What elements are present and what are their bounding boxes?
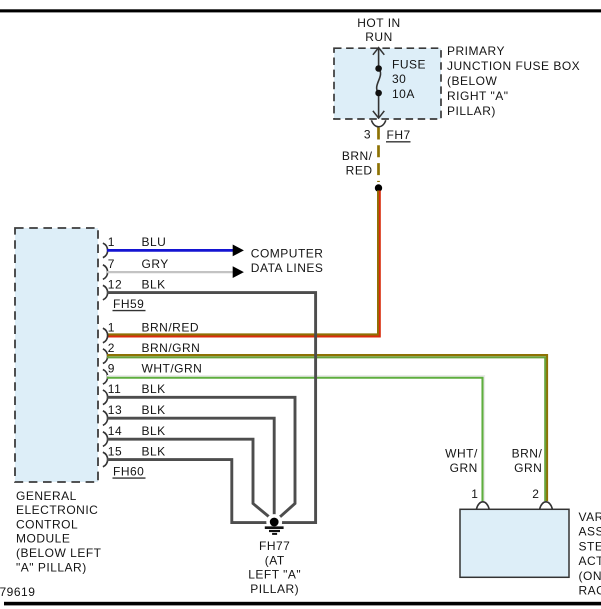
connector pin 2 arc on actuator: [540, 502, 553, 509]
svg-text:BLK: BLK: [142, 277, 166, 291]
svg-text:2: 2: [108, 341, 115, 355]
svg-text:BLK: BLK: [142, 424, 166, 438]
svg-text:3: 3: [364, 128, 371, 142]
svg-text:(AT: (AT: [265, 553, 285, 567]
svg-text:PILLAR): PILLAR): [250, 582, 299, 596]
fuse value label: [392, 58, 426, 101]
svg-text:RED: RED: [346, 163, 373, 177]
wire BLK pin 11 to ground FH77: [107, 397, 295, 518]
svg-text:WHT/: WHT/: [445, 446, 478, 460]
svg-text:1: 1: [108, 320, 115, 334]
wire WHT/GRN green stripe from pin 9 to actuator pin 1: [107, 378, 483, 501]
svg-text:13: 13: [108, 403, 122, 417]
svg-text:BRN/RED: BRN/RED: [142, 320, 200, 334]
svg-text:BRN/: BRN/: [512, 446, 543, 460]
connector pin 15 (BLK) arc: [103, 452, 108, 467]
svg-text:BLK: BLK: [142, 403, 166, 417]
svg-text:12: 12: [108, 277, 122, 291]
svg-text:WHT/GRN: WHT/GRN: [142, 362, 203, 376]
svg-text:ELECTRONIC: ELECTRONIC: [16, 503, 98, 517]
svg-text:10A: 10A: [392, 87, 415, 101]
label BRN/RED: [342, 149, 373, 178]
connector FH7 label: [386, 128, 411, 142]
label COMPUTER DATA LINES: [251, 247, 324, 275]
label BRN/GRN at actuator: [512, 446, 543, 475]
connector pin 1 (BLU) arc: [103, 243, 108, 258]
svg-text:(BELOW LEFT: (BELOW LEFT: [16, 546, 102, 560]
svg-text:14: 14: [108, 424, 122, 438]
wire BLK pin 14 to ground FH77: [107, 439, 271, 518]
svg-text:ACTUATOR: ACTUATOR: [579, 554, 601, 568]
connector pin 12 (BLK) arc: [103, 285, 108, 300]
svg-text:JUNCTION FUSE BOX: JUNCTION FUSE BOX: [447, 59, 580, 73]
svg-text:BRN/: BRN/: [342, 149, 373, 163]
arrow to computer data lines (top): [233, 245, 244, 257]
svg-text:11: 11: [108, 382, 121, 396]
connector pin 14 (BLK) arc: [103, 432, 108, 447]
wire BRN/RED from splice down and left to module pin 1: [107, 191, 380, 337]
svg-text:2: 2: [532, 487, 539, 501]
svg-text:FH59: FH59: [113, 297, 144, 311]
svg-text:FH60: FH60: [113, 464, 144, 478]
svg-text:BLK: BLK: [142, 382, 166, 396]
svg-text:VARIABLE: VARIABLE: [579, 510, 601, 524]
connector pin 1 arc on actuator: [476, 502, 489, 509]
svg-text:HOT IN: HOT IN: [357, 16, 400, 30]
svg-text:"A" PILLAR): "A" PILLAR): [16, 560, 87, 574]
connector pin 1 (BRN/RED) arc: [103, 328, 108, 343]
svg-text:BLU: BLU: [142, 235, 167, 249]
svg-text:DATA LINES: DATA LINES: [251, 261, 324, 275]
svg-text:7: 7: [108, 257, 115, 271]
svg-text:BRN/GRN: BRN/GRN: [142, 341, 201, 355]
label PRIMARY JUNCTION FUSE BOX: [447, 44, 580, 118]
splice junction dot: [375, 184, 382, 191]
svg-text:COMPUTER: COMPUTER: [251, 247, 324, 261]
arrow to computer data lines (bottom): [233, 266, 244, 278]
svg-text:STEERING: STEERING: [579, 539, 601, 553]
border bottom: [4, 602, 601, 606]
wire BRN/GRN from pin 2 to actuator pin 2: [107, 355, 547, 501]
svg-text:GRN: GRN: [514, 461, 542, 475]
svg-text:9: 9: [108, 362, 115, 376]
svg-text:(ON: (ON: [579, 569, 601, 583]
svg-text:GENERAL: GENERAL: [16, 489, 77, 503]
ground FH77: [265, 514, 284, 534]
svg-text:RACK): RACK): [579, 584, 601, 598]
connector pin 11 (BLK) arc: [103, 390, 108, 405]
wire BLK pin 13 to ground FH77: [107, 418, 274, 517]
connector pin 2 (BRN/GRN) arc: [103, 349, 108, 364]
svg-text:79619: 79619: [0, 585, 35, 599]
wire WHT/GRN white stripe: [107, 376, 484, 501]
ground label FH77 (AT LEFT "A" PILLAR): [248, 539, 301, 596]
svg-text:30: 30: [392, 72, 406, 86]
svg-text:GRY: GRY: [142, 257, 169, 271]
module label GENERAL ELECTRONIC CONTROL MODULE: [16, 489, 102, 575]
svg-text:ASSIST: ASSIST: [579, 525, 601, 539]
svg-text:RUN: RUN: [365, 30, 393, 44]
connector FH60 label: [113, 464, 146, 478]
fuse FUSE 30 10A: [373, 48, 384, 119]
wire BLU: [107, 249, 233, 252]
border top: [0, 9, 601, 12]
svg-text:FH77: FH77: [259, 539, 290, 553]
label HOT IN RUN: [357, 16, 400, 44]
connector pin 9 (WHT/GRN) arc: [103, 370, 108, 385]
svg-text:15: 15: [108, 444, 122, 458]
svg-text:BLK: BLK: [142, 444, 166, 458]
connector pin 13 (BLK) arc: [103, 411, 108, 426]
svg-text:(BELOW: (BELOW: [447, 74, 498, 88]
svg-text:PRIMARY: PRIMARY: [447, 44, 505, 58]
fuse box: primary junction fuse box: [334, 48, 441, 119]
svg-text:LEFT "A": LEFT "A": [248, 568, 301, 582]
wire BRN/RED dashed segment from fuse to splice: [377, 128, 380, 183]
svg-text:RIGHT "A": RIGHT "A": [447, 89, 508, 103]
svg-text:MODULE: MODULE: [16, 532, 70, 546]
svg-text:1: 1: [108, 235, 115, 249]
wire BLK pin 12 to ground FH77: [107, 293, 316, 523]
connector FH59 label: [113, 297, 146, 311]
connector pin 3 of FH7 (arc under fuse box): [371, 120, 385, 126]
wire GRY: [107, 271, 233, 273]
svg-text:CONTROL: CONTROL: [16, 517, 78, 531]
variable assist steering actuator box: [460, 509, 569, 577]
connector pin 7 (GRY) arc: [103, 265, 108, 280]
general electronic control module box: [15, 228, 98, 482]
svg-text:1: 1: [471, 487, 478, 501]
svg-text:PILLAR): PILLAR): [447, 104, 496, 118]
label VARIABLE ASSIST STEERING ACTUATOR: [579, 510, 601, 598]
svg-text:FH7: FH7: [387, 128, 411, 142]
wire BLK pin 15 to ground FH77: [107, 460, 270, 523]
svg-text:FUSE: FUSE: [392, 58, 426, 72]
svg-text:GRN: GRN: [450, 461, 478, 475]
label WHT/GRN at actuator: [445, 446, 478, 475]
